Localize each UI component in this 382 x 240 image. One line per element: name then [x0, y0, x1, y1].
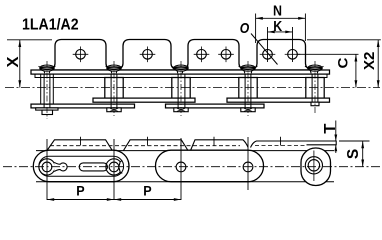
- svg-text:C: C: [334, 58, 350, 69]
- svg-text:K: K: [273, 18, 282, 35]
- svg-text:S: S: [345, 149, 362, 159]
- svg-text:N: N: [273, 3, 282, 20]
- svg-text:1LA1/A2: 1LA1/A2: [22, 17, 79, 34]
- svg-text:X: X: [5, 56, 22, 67]
- svg-text:T: T: [322, 123, 339, 133]
- svg-text:X2: X2: [361, 52, 378, 70]
- svg-text:P: P: [76, 184, 84, 199]
- svg-text:P: P: [143, 184, 151, 199]
- svg-text:O: O: [240, 21, 250, 37]
